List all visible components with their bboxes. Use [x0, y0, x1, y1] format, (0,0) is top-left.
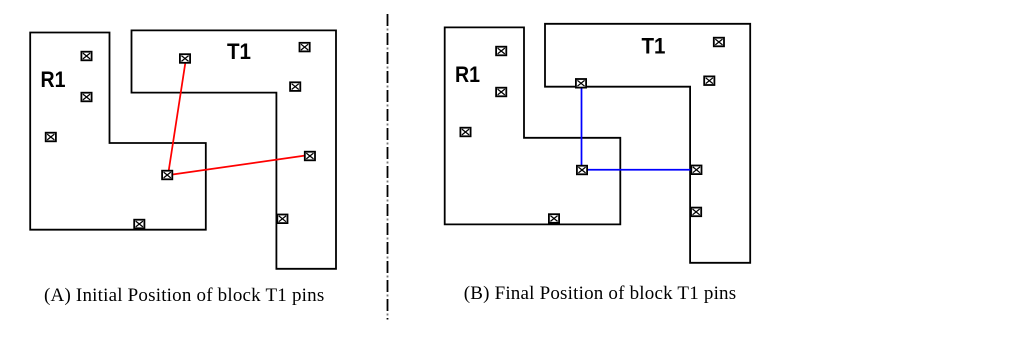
svg-text:(B) Final Position of block T1: (B) Final Position of block T1 pins	[464, 283, 737, 304]
svg-text:T1: T1	[227, 39, 251, 64]
svg-text:T1: T1	[642, 34, 666, 59]
svg-text:R1: R1	[455, 62, 480, 87]
svg-text:(A) Initial Position of block: (A) Initial Position of block T1 pins	[44, 285, 324, 306]
svg-text:R1: R1	[41, 67, 66, 92]
